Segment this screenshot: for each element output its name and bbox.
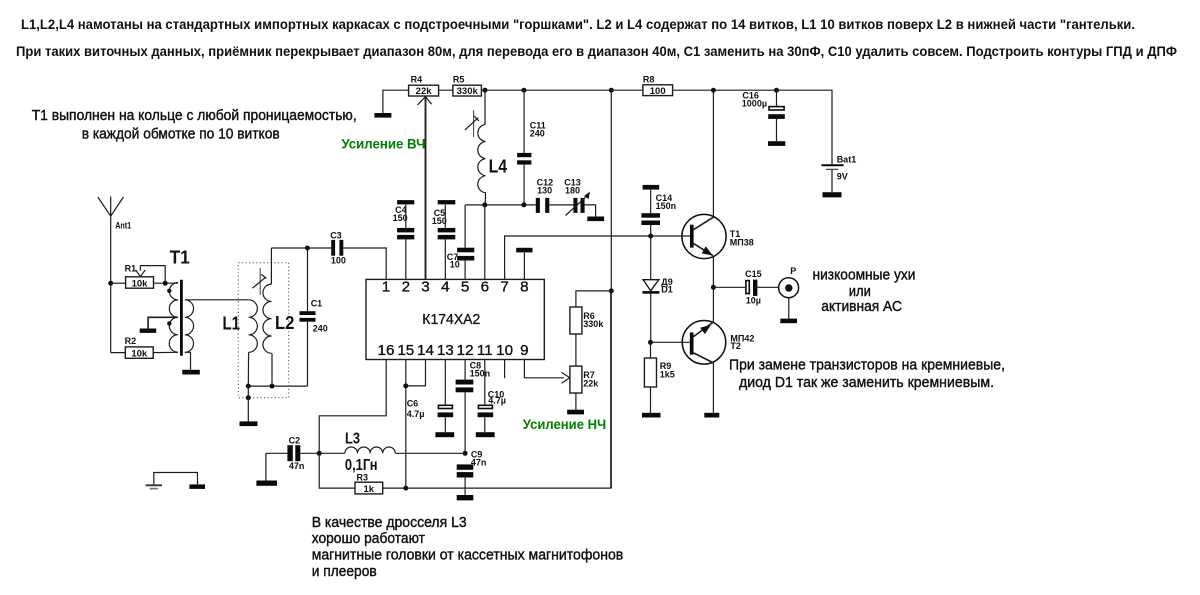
svg-text:22k: 22k — [583, 378, 599, 388]
svg-text:L1,L2,L4 намотаны на стандартн: L1,L2,L4 намотаны на стандартных импортн… — [21, 17, 1135, 32]
wire antenna line to R2 and R2 to winding bottom — [111, 351, 178, 353]
svg-text:240: 240 — [530, 129, 545, 139]
capacitor C3 — [330, 231, 346, 266]
ground bar under tank — [240, 421, 258, 426]
wire pin 16 down-left — [319, 360, 386, 454]
node on dashed edge — [246, 395, 251, 400]
svg-text:Усиление ВЧ: Усиление ВЧ — [341, 135, 425, 151]
node R1 right junction — [163, 281, 168, 286]
wire bottom bus — [319, 291, 611, 488]
dashed box around L1 L2 — [238, 263, 288, 398]
node bus/C11 top — [521, 88, 526, 93]
svg-text:13: 13 — [437, 342, 454, 359]
svg-text:150n: 150n — [470, 368, 491, 378]
svg-text:15: 15 — [397, 342, 414, 359]
node T1 emitter / C15 / T2 emitter — [711, 285, 716, 290]
node bus/C16 — [774, 88, 779, 93]
node antenna/R1 junction — [108, 281, 113, 286]
node pin15/pin14 — [403, 383, 408, 388]
wire secondary bottom to ground — [185, 352, 191, 370]
node feed line / R6 branch — [609, 288, 614, 293]
connector P jack — [779, 266, 799, 323]
wire R7 to ground — [575, 393, 577, 410]
capacitor C14 — [641, 185, 676, 236]
svg-text:активная АС: активная АС — [821, 299, 902, 315]
svg-text:14: 14 — [417, 342, 434, 359]
node bus/T1 collector — [711, 88, 716, 93]
svg-text:330k: 330k — [457, 86, 479, 97]
svg-text:9: 9 — [520, 342, 528, 359]
wire tank to ground — [247, 386, 249, 421]
resistor R9 — [642, 342, 675, 417]
ground bar under C16 — [768, 141, 785, 146]
ground bar under C10 — [476, 432, 495, 437]
node bus/vertical feed line — [609, 88, 614, 93]
capacitor C10 electrolytic — [476, 360, 506, 438]
transformer T1 secondary winding (right, 3 bumps) — [185, 300, 194, 353]
svg-text:в каждой обмотке по 10 витков: в каждой обмотке по 10 витков — [82, 127, 280, 143]
wire tank bottom bus — [248, 385, 307, 387]
svg-text:Т1 выполнен на кольце с любой: Т1 выполнен на кольце с любой проницаемо… — [32, 108, 357, 124]
antenna Ant1 — [98, 197, 131, 231]
svg-text:Bat1: Bat1 — [837, 154, 857, 164]
ground bar under C6 — [435, 432, 454, 437]
svg-text:47n: 47n — [289, 461, 305, 471]
wire pin 7 up and right to detector node — [505, 236, 651, 279]
ground bar under T2 collector — [704, 413, 719, 418]
wire vertical feed line from bus to bottom bus — [610, 90, 612, 488]
tuning slug arrow of L4 — [473, 110, 475, 137]
node L2 bottom — [270, 384, 275, 389]
svg-text:1: 1 — [382, 278, 390, 295]
svg-text:МП38: МП38 — [730, 238, 754, 248]
capacitor C13 (trimmer) — [564, 177, 590, 215]
svg-text:11: 11 — [477, 342, 493, 359]
coil L2 (4 bumps) — [263, 284, 272, 353]
svg-text:магнитные головки от кассетных: магнитные головки от кассетных магнитофо… — [312, 547, 624, 563]
svg-text:R4: R4 — [411, 75, 423, 85]
svg-text:10k: 10k — [132, 278, 149, 289]
wire oscillator node bus y=204.9 — [465, 204, 536, 206]
resistor R3 — [355, 473, 383, 496]
svg-text:К174ХА2: К174ХА2 — [422, 312, 480, 328]
svg-text:1k5: 1k5 — [660, 369, 675, 379]
svg-text:150: 150 — [432, 216, 447, 226]
diode D1 — [642, 236, 672, 342]
svg-text:100: 100 — [331, 256, 346, 266]
wire pin 8 to ground — [523, 252, 525, 279]
resistor R7 (trimmer) — [570, 366, 599, 393]
svg-text:C2: C2 — [289, 436, 301, 446]
node L3/C9/pin12 junction — [463, 451, 468, 456]
resistor R4 (trimmer) — [409, 75, 439, 98]
ground bar primary mid tap — [140, 329, 157, 333]
svg-text:низкоомные ухи: низкоомные ухи — [813, 268, 916, 284]
svg-text:12: 12 — [457, 342, 474, 359]
wire R6 branch — [576, 291, 611, 307]
node C3/C1 junction — [305, 246, 310, 251]
wire pin 14 loop to pin 15 — [406, 360, 426, 386]
svg-text:L4: L4 — [489, 156, 508, 177]
wire node to R1 left — [111, 282, 126, 284]
earth ground assembly bottom left — [146, 473, 205, 489]
svg-text:0,1Гн: 0,1Гн — [345, 457, 378, 474]
node C11 bottom — [521, 202, 526, 207]
svg-text:При замене транзисторов на кре: При замене транзисторов на кремниевые, — [729, 358, 1005, 374]
ground bar under C9 — [457, 495, 474, 500]
ground bar under Bat1 — [823, 192, 842, 197]
wire C13 right to ground — [585, 205, 596, 217]
ground bar under R7 — [567, 410, 584, 415]
svg-text:9V: 9V — [837, 171, 848, 181]
wire R6 to R7 — [575, 334, 577, 366]
node pin6/L4 bottom — [482, 202, 487, 207]
svg-text:130: 130 — [537, 185, 552, 195]
transformer T1 primary winding (left, 4 bumps) — [169, 283, 178, 353]
battery Bat1 — [822, 154, 857, 197]
svg-text:100: 100 — [650, 86, 666, 97]
svg-text:10: 10 — [450, 259, 460, 269]
svg-text:Усиление НЧ: Усиление НЧ — [523, 416, 606, 432]
ground bar under R9 — [642, 413, 661, 418]
capacitor C5 — [432, 200, 456, 279]
svg-text:L2: L2 — [275, 312, 294, 333]
svg-text:10k: 10k — [131, 348, 148, 359]
svg-text:Т2: Т2 — [730, 341, 741, 351]
resistor R1 — [125, 264, 154, 290]
wire pin 9 to R7 wiper — [524, 360, 564, 378]
svg-text:Ant1: Ant1 — [115, 220, 131, 230]
svg-text:C6: C6 — [407, 398, 419, 408]
ground bar left of R4 — [374, 113, 391, 118]
wire L2 bottom down — [271, 353, 273, 386]
svg-text:R3: R3 — [357, 473, 369, 483]
wiper of R1 (arrow + link to right terminal) — [140, 266, 165, 284]
svg-text:R2: R2 — [125, 336, 137, 346]
svg-text:8: 8 — [520, 278, 528, 295]
node D1/R9/T2 base — [648, 340, 653, 345]
node pin7/C14/D1/T1 base — [648, 234, 653, 239]
wire antenna mast down to R1/R2 node — [110, 216, 112, 352]
ground bar above C14 — [643, 185, 660, 190]
svg-text:R8: R8 — [643, 75, 655, 85]
resistor R8 — [643, 75, 673, 97]
wire C1 bottom — [307, 322, 309, 386]
transistor Q1 T1 МП38 — [651, 90, 754, 287]
inductor L3 — [319, 431, 465, 474]
svg-text:150n: 150n — [656, 201, 677, 211]
ground bar under jack P — [780, 319, 797, 324]
svg-text:1k: 1k — [364, 484, 375, 495]
svg-text:L1: L1 — [223, 312, 241, 333]
op-amp U1 IC К174ХА2 box — [366, 278, 544, 359]
svg-text:7: 7 — [500, 278, 508, 295]
svg-text:T1: T1 — [170, 247, 190, 268]
node C2/L3/pin16 junction — [317, 451, 322, 456]
wiper arrow into R4 from pin 3 wire — [425, 97, 427, 280]
svg-text:и плееров: и плееров — [312, 564, 377, 580]
svg-text:16: 16 — [378, 342, 395, 359]
wire L2 top up to C3 line — [270, 248, 272, 284]
svg-text:180: 180 — [565, 185, 580, 195]
coil L1 (3 bumps) — [249, 300, 258, 353]
node L1 bottom — [246, 384, 251, 389]
capacitor C7 — [447, 205, 475, 280]
wire pin 6 up to oscillator node — [484, 205, 486, 280]
wire secondary top to L1 — [186, 299, 249, 301]
svg-text:1000µ: 1000µ — [742, 98, 767, 108]
node pin15/bottom bus — [403, 486, 408, 491]
svg-text:диод D1 так же заменить кремни: диод D1 так же заменить кремниевым. — [739, 375, 994, 391]
wire pin 10 stub — [504, 360, 506, 379]
ground bar left of C2 — [256, 481, 277, 486]
capacitor C1 — [300, 299, 328, 334]
svg-text:C1: C1 — [311, 299, 323, 309]
resistor R5 — [453, 75, 482, 98]
svg-text:5: 5 — [461, 278, 469, 295]
transformer T1 core — [180, 280, 183, 356]
wire primary mid tap to ground — [148, 317, 178, 328]
svg-text:хорошо работают: хорошо работают — [312, 531, 426, 547]
svg-text:При таких виточных данных, при: При таких виточных данных, приёмник пере… — [16, 44, 1177, 59]
svg-text:C15: C15 — [745, 269, 762, 279]
capacitor C9 — [457, 449, 487, 500]
ground bar under secondary — [182, 370, 200, 375]
svg-text:4.7µ: 4.7µ — [488, 395, 506, 405]
wire R1 right to transformer — [154, 282, 179, 284]
capacitor C2 — [256, 436, 319, 486]
wire top supply bus — [383, 90, 832, 164]
wire C12 to C13 — [549, 204, 573, 206]
svg-text:4: 4 — [441, 278, 449, 295]
svg-text:2: 2 — [402, 278, 410, 295]
capacitor C4 — [393, 200, 415, 279]
capacitor C8 — [456, 360, 491, 454]
capacitor C16 electrolytic — [742, 90, 786, 146]
svg-text:10µ: 10µ — [746, 296, 761, 306]
capacitor C12 — [536, 177, 553, 213]
coil L4 (4 bumps, bulge left) — [478, 124, 486, 204]
svg-text:В качестве дросселя L3: В качестве дросселя L3 — [312, 515, 467, 531]
ground bar above C5 — [438, 200, 456, 204]
capacitor C15 electrolytic — [713, 269, 778, 306]
tuning slug arrow of L2 — [259, 268, 261, 295]
polarity dot primary top — [167, 289, 171, 293]
svg-text:10: 10 — [496, 342, 513, 359]
svg-text:330k: 330k — [583, 319, 604, 329]
svg-text:P: P — [790, 266, 796, 276]
svg-text:или: или — [849, 284, 871, 300]
capacitor C11 — [517, 90, 546, 205]
polarity dot primary bottom — [167, 321, 171, 325]
svg-text:R5: R5 — [453, 75, 465, 85]
ground bar above pin 8 — [516, 248, 532, 253]
resistor R6 — [570, 307, 604, 334]
resistor R2 — [125, 336, 154, 359]
wire C1 top — [307, 248, 309, 311]
wire L4 top from bus — [484, 90, 486, 124]
wire pin 15 down to bottom bus — [405, 360, 407, 489]
svg-text:D1: D1 — [661, 285, 673, 295]
svg-text:4.7µ: 4.7µ — [407, 409, 425, 419]
svg-text:6: 6 — [481, 278, 489, 295]
wire L1 bottom down — [247, 352, 249, 386]
svg-text:3: 3 — [421, 278, 429, 295]
svg-text:C3: C3 — [330, 231, 342, 241]
svg-text:22k: 22k — [416, 86, 433, 97]
svg-text:R1: R1 — [125, 264, 137, 274]
wire C3 horizontal line — [271, 248, 386, 279]
transistor Q2 T2 МП42 — [651, 287, 755, 417]
capacitor C6 electrolytic — [407, 360, 454, 438]
ground bar right of C13 — [587, 217, 604, 222]
node bus/L4 top — [483, 88, 488, 93]
svg-text:240: 240 — [313, 324, 328, 334]
ground bar above C4 — [397, 200, 414, 204]
svg-text:L3: L3 — [345, 431, 360, 448]
